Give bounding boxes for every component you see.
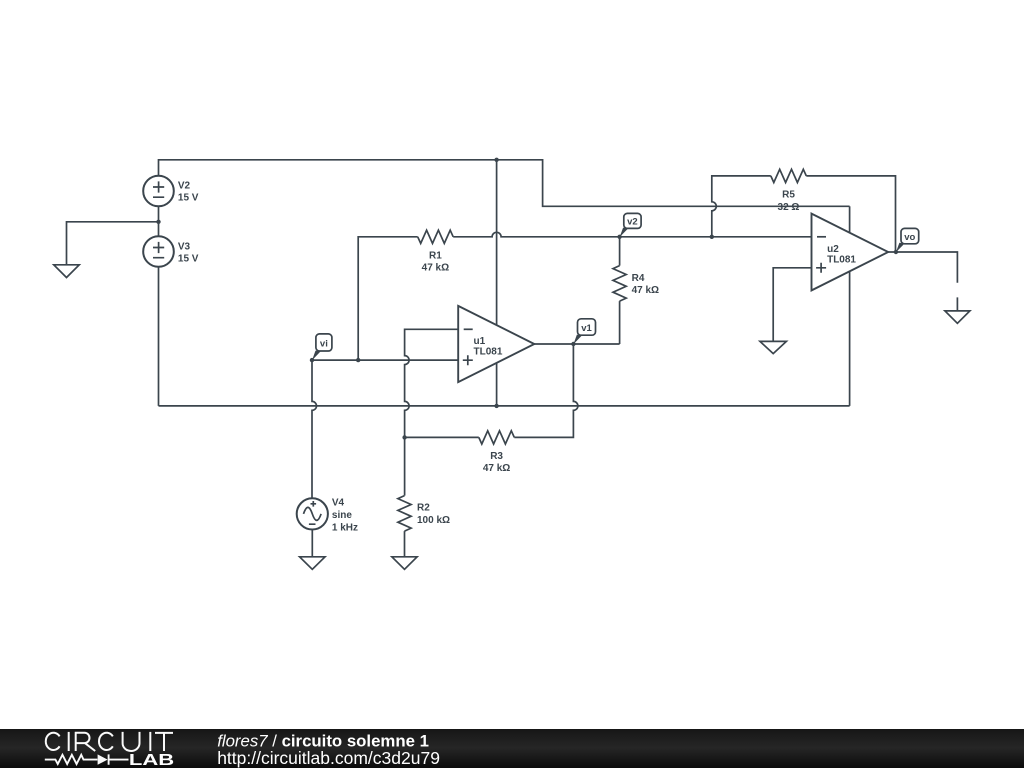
wire u2 output to vo and right [888,252,957,283]
CircuitLab logo CIRCUIT outline letters [46,732,173,751]
svg-text:vi: vi [320,338,328,349]
wire vi branch down with hop over bottom rail to V4 [312,360,317,498]
node tag v1 [573,319,595,345]
wire R1 left lead and branch down to noninverting input wire [358,237,418,360]
wire R2 bottom lead to ground [404,531,406,557]
wire u1 inverting input branch down through hops to R3 junction [405,329,459,437]
svg-text:47 kΩ: 47 kΩ [483,463,510,474]
wire V4 bottom to ground [311,530,313,557]
svg-text:LAB: LAB [129,752,174,768]
svg-text:TL081: TL081 [827,254,856,265]
svg-text:32 Ω: 32 Ω [778,202,800,213]
wire R4 bottom lead to output wire [619,301,621,344]
svg-text:u1: u1 [474,336,486,347]
svg-text:47 kΩ: 47 kΩ [422,263,449,274]
svg-text:R2: R2 [417,503,430,514]
node junction dot u1 V- stub on bottom rail [494,404,498,408]
ground symbol left of V2/V3 [54,265,79,278]
svg-text:15 V: 15 V [178,253,199,264]
op-amp u2 TL081 [812,214,889,291]
wire u2 V+ power stub [849,206,851,233]
node v2 junction dot [617,235,621,239]
resistor R3 [479,431,515,444]
resistor R4 [613,266,626,302]
node vo junction dot [894,250,898,254]
ground symbol right output (detached) [945,297,970,323]
svg-text:sine: sine [332,510,352,521]
node junction dot between V2 and V3 [156,220,160,224]
wire u1 V- power stub [496,363,498,406]
node junction dot R5 branch on v2 wire [710,235,714,239]
node junction dot R3 left / R2 top [402,435,406,439]
wire u1 output to v1 [534,343,619,345]
wire u2 noninverting input to ground [773,268,811,342]
wire V2 bottom to V3 top [158,206,160,236]
svg-text:R3: R3 [490,451,503,462]
svg-text:R4: R4 [632,273,645,284]
resistor R2 [398,496,411,531]
wire bottom rail [159,405,850,407]
node tag v2 [620,213,642,237]
svg-text:v2: v2 [627,217,638,228]
resistor R1 [418,230,454,243]
op-amp u1 TL081 [458,306,534,382]
node v1 junction dot [571,342,575,346]
wire R5 left branch with hop over supply row [712,176,771,237]
wire V3 bottom to bottom rail left corner [158,267,160,406]
wire top rail from V2 top to right corner down to supply row [159,160,850,207]
svg-text:TL081: TL081 [474,346,503,357]
wire R5 right lead down to vo node [806,176,895,252]
voltage source V4 sine [297,498,328,529]
svg-text:47 kΩ: 47 kΩ [632,285,659,296]
wire R4 top lead from v2 node [619,237,621,266]
wire R1 right lead with hop over u1 V+ stub [453,232,619,237]
wire v1 branch down with hop over bottom rail to R3 right lead [514,344,578,437]
ground symbol below R2 [392,557,417,570]
svg-text:R1: R1 [429,250,442,261]
voltage source V2 [143,176,174,207]
ground symbol below V4 [300,557,325,570]
wire R3 left lead [405,436,479,438]
wire v2 node to u2 inverting input [620,236,812,238]
svg-text:V2: V2 [178,181,191,192]
voltage source V3 [143,236,174,267]
svg-text:V3: V3 [178,241,191,252]
footer bar [0,729,1024,768]
wire u1 V+ power stub [496,160,498,325]
svg-text:15 V: 15 V [178,193,199,204]
wire u2 V- power stub down to bottom rail [849,271,851,406]
svg-text:V4: V4 [332,498,345,509]
node tag vi [310,334,332,362]
svg-text:http://circuitlab.com/c3d2u79: http://circuitlab.com/c3d2u79 [217,748,440,768]
ground symbol below u2 + input [760,341,786,353]
svg-text:vo: vo [904,232,915,243]
svg-text:1 kHz: 1 kHz [332,522,358,533]
resistor R5 [771,169,807,182]
node junction dot top rail / u1 V+ stub [494,158,498,162]
wire from V2/V3 node to left ground [67,222,159,265]
svg-text:v1: v1 [581,323,592,334]
node junction dot R1 branch on + input wire [356,358,360,362]
svg-text:R5: R5 [782,190,795,201]
wire R2 top lead [404,437,406,495]
svg-text:u2: u2 [827,244,839,255]
node tag vo [896,228,919,252]
CircuitLab logo resistor-diode glyph [45,754,129,764]
svg-text:100 kΩ: 100 kΩ [417,515,450,526]
wire u1 noninverting input from vi node [312,359,458,361]
